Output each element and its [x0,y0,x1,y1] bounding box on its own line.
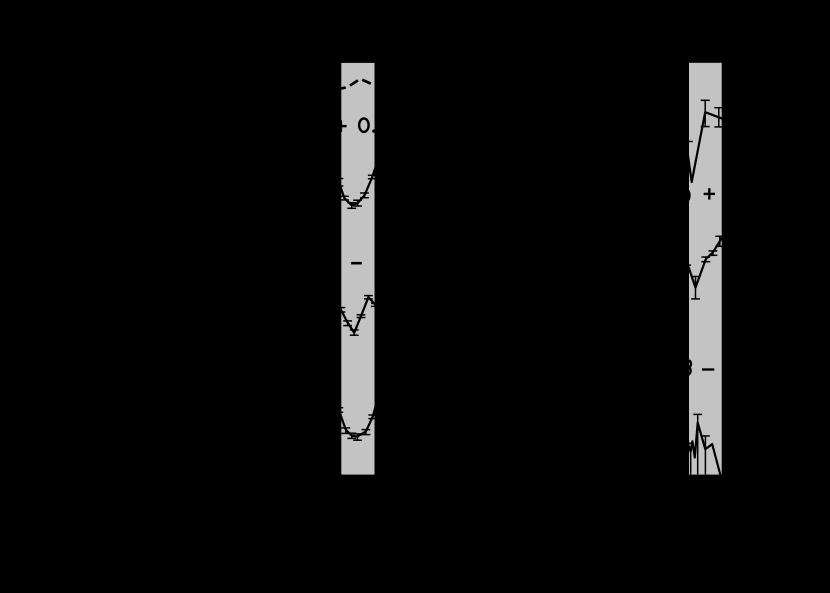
wire: polyline [339,160,378,205]
cap at left edge [685,442,691,444]
cap at left edge [685,264,691,266]
errorbar curve R3 (right band, panel 3) [685,414,720,474]
wire: polyline [688,237,722,288]
minus sign annotation (right band, panel 2) [702,368,714,370]
period dot of "0." [372,130,375,133]
errorbar curve L5 (left band, panel 3) [334,402,377,441]
wire: polyline [688,112,724,182]
errorbar curve R1 (right band, panel 1) [684,100,723,182]
error bar cap at left edge (off-band point) [684,141,692,143]
plus sign annotation (right band, panel 1) [704,188,715,199]
minus sign annotation (left band, panel 2) [351,262,362,265]
dashed curve (left band, top panel) [334,79,380,90]
partial glyph "3" (right band, panel 2) [687,360,691,375]
errorbar curve L2 (left band, panel 1) [335,160,378,208]
partial glyph "0" (right band, panel 1) [680,189,690,203]
error bars [335,175,377,208]
wire: polyline [688,423,720,475]
plus sign annotation (left band, top panel) [335,120,346,131]
glyph "0" annotation (left band, top panel) [359,118,369,132]
errorbar curve L4 (left band, panel 2) [337,296,381,336]
left highlight band [341,63,374,475]
wire: polyline [339,402,377,437]
wire: polyline [341,297,380,333]
errorbar curve R2 (right band, panel 2) [685,236,724,299]
right highlight band [689,63,722,475]
